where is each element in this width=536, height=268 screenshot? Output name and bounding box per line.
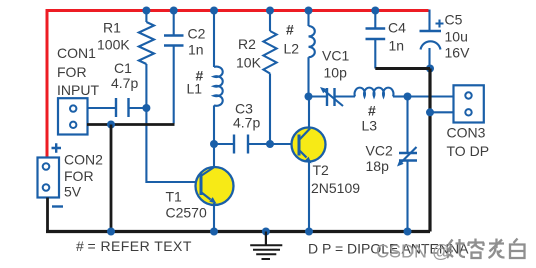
node L2 VC1 T2-collector junction xyxy=(305,93,313,101)
node L2 top xyxy=(305,7,313,15)
resistor R1 xyxy=(139,11,154,109)
svg-text:# = REFER TEXT: # = REFER TEXT xyxy=(76,238,192,254)
node CON3 bottom pin tap xyxy=(426,108,434,116)
node R2 C3 T2-base junction xyxy=(266,140,274,148)
svg-text:1n: 1n xyxy=(389,38,405,54)
svg-text:4.7p: 4.7p xyxy=(233,114,260,130)
node rail VC2 xyxy=(404,228,412,236)
label C5 plus xyxy=(436,20,444,28)
wire T2 emitter to rail xyxy=(308,162,310,232)
svg-text:10p: 10p xyxy=(324,64,348,80)
svg-text:CSDN @: CSDN @ xyxy=(376,242,450,262)
svg-text:L2: L2 xyxy=(284,40,300,56)
svg-text:FOR: FOR xyxy=(64,168,94,184)
node CON1 ground tap xyxy=(107,121,115,129)
svg-text:100K: 100K xyxy=(97,36,130,52)
wire CON1 ground black xyxy=(87,123,175,126)
svg-text:TO DP: TO DP xyxy=(447,143,490,159)
svg-text:CON2: CON2 xyxy=(64,151,103,167)
capacitor C2 xyxy=(164,11,184,124)
svg-text:L1: L1 xyxy=(187,81,203,97)
svg-text:CON1: CON1 xyxy=(57,45,96,61)
connector CON1 xyxy=(58,98,88,134)
label CON2 minus xyxy=(52,205,63,207)
svg-text:FOR: FOR xyxy=(57,64,87,80)
node C1 R1 junction xyxy=(142,104,150,112)
svg-text:T1: T1 xyxy=(166,189,183,205)
svg-text:18p: 18p xyxy=(366,158,390,174)
transistor T1 xyxy=(196,167,234,206)
watermark hanzi 3 xyxy=(489,239,505,259)
capacitor C4 xyxy=(366,11,386,69)
inductor L3 xyxy=(355,88,394,97)
wire L3 to output node xyxy=(393,95,408,97)
node C4 top xyxy=(371,7,379,15)
wire to CON3 top pin xyxy=(408,95,454,97)
svg-text:#: # xyxy=(368,103,376,119)
svg-text:R1: R1 xyxy=(103,19,121,35)
node rail ground symbol xyxy=(262,228,270,236)
wire CON3 bottom pin lead xyxy=(430,111,454,113)
capacitor C1 xyxy=(87,98,146,117)
trimmer capacitor VC1 xyxy=(309,87,356,106)
wire T2 base lead xyxy=(270,143,300,145)
svg-text:5V: 5V xyxy=(64,184,82,200)
svg-text:2N5109: 2N5109 xyxy=(311,180,360,196)
trimmer capacitor VC2 xyxy=(397,97,417,232)
svg-text:#: # xyxy=(286,22,294,38)
node C5 bottom xyxy=(426,65,434,73)
wire T1 emitter to rail xyxy=(213,203,215,232)
wire T2 collector lead xyxy=(308,97,310,129)
inductor L2 xyxy=(309,11,315,97)
node rail T2 emitter xyxy=(305,228,313,236)
node C2 top xyxy=(170,7,178,15)
svg-text:VC2: VC2 xyxy=(366,143,393,159)
wire ground drop black xyxy=(110,125,113,232)
transistor T2 xyxy=(292,128,326,164)
svg-text:T2: T2 xyxy=(313,162,330,178)
watermark hanzi 2 xyxy=(468,239,484,259)
watermark hanzi 4 xyxy=(510,239,525,259)
svg-text:VC1: VC1 xyxy=(322,48,349,64)
capacitor C5 electrolytic xyxy=(420,31,442,69)
wire C1 junction to T1 base xyxy=(146,108,200,182)
wire L1 top lead xyxy=(213,11,215,68)
svg-text:C4: C4 xyxy=(388,20,406,36)
ground symbol xyxy=(250,232,282,260)
svg-text:C2570: C2570 xyxy=(166,204,207,220)
node rail CON1-drop xyxy=(107,228,115,236)
svg-text:1n: 1n xyxy=(188,41,204,57)
svg-text:16V: 16V xyxy=(445,45,471,61)
wire C4-C5 bottom link black xyxy=(375,67,430,70)
svg-text:C1: C1 xyxy=(114,60,132,76)
svg-text:INPUT: INPUT xyxy=(57,82,99,98)
svg-text:R2: R2 xyxy=(238,36,256,52)
svg-text:L3: L3 xyxy=(362,118,378,134)
svg-text:C5: C5 xyxy=(445,12,463,28)
node R1 top xyxy=(142,7,150,15)
node L1 top xyxy=(210,7,218,15)
wire right vertical black xyxy=(428,69,431,232)
wire CON2 to ground rail black xyxy=(46,198,49,232)
node C3 tap xyxy=(210,140,218,148)
svg-text:10u: 10u xyxy=(445,29,468,45)
watermark hanzi 1 xyxy=(447,239,465,258)
wire C5 top lead xyxy=(428,10,430,32)
inductor L1 xyxy=(214,67,223,106)
svg-text:CON3: CON3 xyxy=(447,125,486,141)
wire L1 to T1 collector xyxy=(213,105,215,168)
svg-text:C2: C2 xyxy=(188,25,206,41)
label CON2 plus xyxy=(52,143,62,152)
svg-text:10K: 10K xyxy=(236,55,262,71)
resistor R2 xyxy=(263,11,276,145)
wire V+ red rail xyxy=(47,11,429,158)
node R2 top xyxy=(266,7,274,15)
connector CON3 xyxy=(454,85,484,122)
node L3 VC2 CON3 junction xyxy=(404,93,412,101)
wire ground rail black xyxy=(46,230,430,233)
connector CON2 xyxy=(38,158,60,198)
svg-text:4.7p: 4.7p xyxy=(111,75,138,91)
capacitor C3 xyxy=(214,135,270,154)
node rail T1 emitter xyxy=(210,228,218,236)
